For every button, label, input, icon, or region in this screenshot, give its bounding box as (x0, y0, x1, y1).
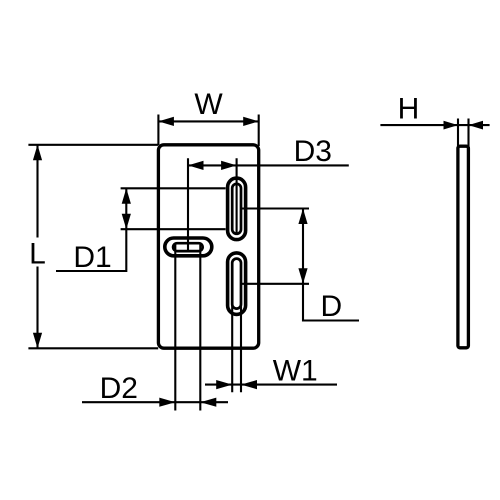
D3 arrowhead right (221, 161, 237, 170)
W arrowhead right (243, 117, 259, 126)
bottom slot outer (228, 253, 246, 315)
D extension line top (241, 207, 309, 209)
D2 arrowhead right (200, 398, 216, 407)
H dimension line (380, 124, 489, 126)
L arrowhead top (33, 145, 42, 161)
top slot outer (228, 178, 246, 240)
W dimension extension line left (157, 115, 159, 146)
D1 extension line bottom (121, 228, 226, 230)
D2 arrowhead left (159, 398, 175, 407)
horizontal slot outer (165, 238, 212, 256)
L extension line top (28, 144, 158, 146)
W dimension line (158, 120, 258, 122)
D1 dimension line (125, 188, 127, 229)
D dimension line (302, 209, 304, 284)
D1 extension line top (121, 187, 226, 189)
D3 centerline extension through top slot (236, 158, 238, 234)
D3 dimension line (188, 164, 349, 166)
svg-text:D1: D1 (73, 241, 111, 274)
L extension line bottom (28, 347, 158, 349)
D2 dimension line (82, 401, 228, 403)
D2 extension line left (174, 245, 176, 411)
W1 arrowhead left (216, 380, 232, 389)
H arrowhead right (469, 121, 484, 130)
side view plate (458, 146, 469, 348)
D2 extension line right (199, 245, 201, 411)
D3 centerline extension through horizontal slot (187, 158, 189, 252)
L arrowhead bottom (33, 333, 42, 349)
svg-text:W1: W1 (273, 355, 318, 388)
W1 dimension line (205, 384, 337, 386)
horizontal slot inner (173, 243, 203, 251)
D1 leader line (56, 229, 126, 271)
L dimension line upper (36, 145, 38, 238)
bottom slot inner (232, 259, 241, 309)
H extension line left (457, 119, 459, 147)
svg-text:D: D (321, 290, 343, 323)
svg-text:D3: D3 (294, 135, 332, 168)
D arrowhead top (298, 209, 307, 225)
W1 arrowhead right (241, 380, 257, 389)
top slot inner (232, 184, 241, 234)
W1 extension line right (240, 290, 242, 392)
svg-text:W: W (194, 88, 223, 121)
D extension line bottom (241, 283, 309, 285)
plate front view outline (158, 145, 258, 348)
D3 arrowhead left (188, 161, 204, 170)
svg-text:D2: D2 (100, 372, 138, 405)
H extension line right (467, 119, 469, 147)
D leader line (303, 284, 359, 321)
D1 arrowhead top (122, 188, 131, 204)
W1 extension line left (231, 290, 233, 392)
D arrowhead bottom (298, 268, 307, 284)
L dimension line lower (36, 267, 38, 349)
W dimension extension line right (258, 115, 260, 147)
H arrowhead left (444, 121, 459, 130)
svg-text:H: H (398, 93, 420, 126)
D1 arrowhead bottom (122, 214, 131, 230)
W arrowhead left (158, 117, 174, 126)
svg-text:L: L (29, 238, 46, 271)
